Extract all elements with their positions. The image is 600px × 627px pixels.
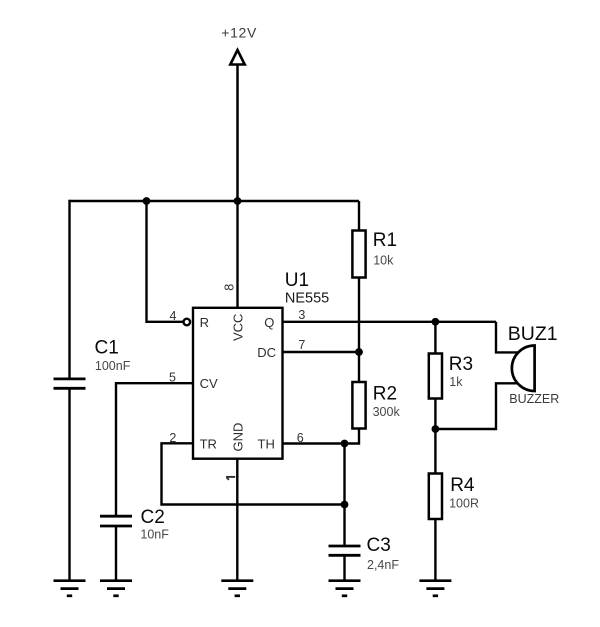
svg-text:R3: R3 (449, 354, 473, 375)
svg-text:BUZ1: BUZ1 (508, 323, 558, 345)
wire buzzer top feed (496, 322, 520, 353)
wire R4 top lead (434, 429, 436, 474)
ground U1 pin1 (221, 581, 253, 596)
svg-text:4: 4 (170, 309, 177, 323)
wire TH node down to C3 (343, 444, 345, 546)
svg-text:U1: U1 (285, 270, 309, 291)
svg-text:Q: Q (264, 315, 274, 330)
svg-text:8: 8 (222, 284, 236, 291)
junction rail / +12V line (234, 197, 242, 205)
svg-text:6: 6 (297, 431, 304, 445)
svg-text:10k: 10k (373, 254, 394, 268)
svg-text:TH: TH (258, 436, 275, 451)
junction TH / R2 / C3 (341, 440, 349, 448)
svg-text:100R: 100R (449, 496, 479, 510)
wire pin4 branch: down then right to reset bubble (147, 201, 184, 322)
svg-text:BUZZER: BUZZER (509, 392, 559, 406)
wire pin 2 TR net: left, down, right to TH/C3 node (162, 443, 345, 504)
power +12V symbol (221, 25, 257, 201)
ground C2 (100, 581, 132, 596)
junction pin3 net / R3 (432, 318, 440, 326)
svg-text:100nF: 100nF (95, 359, 131, 373)
resistor R4 (429, 474, 442, 520)
pin number 1 (rotated, drawn) (226, 477, 235, 480)
wire R2 bottom lead elbow (345, 429, 360, 444)
resistor R1 (352, 231, 365, 278)
wire C1 bottom lead (68, 390, 70, 581)
svg-text:GND: GND (231, 423, 246, 452)
svg-text:1k: 1k (449, 375, 463, 389)
wire buzzer bottom return (435, 383, 519, 429)
svg-text:NE555: NE555 (285, 290, 329, 306)
IC U1 NE555 box (193, 308, 283, 459)
resistor R2 (352, 382, 365, 429)
wire pin 6 TH net (283, 442, 345, 444)
svg-text:R: R (200, 315, 209, 330)
wire GND pin 1 lead (236, 459, 238, 580)
svg-text:C2: C2 (141, 507, 165, 528)
svg-text:R2: R2 (373, 384, 397, 405)
svg-text:VCC: VCC (231, 314, 246, 341)
capacitor C3 (329, 546, 361, 555)
svg-text:300k: 300k (373, 405, 401, 419)
capacitor C1 (54, 379, 86, 388)
wire C2 bottom lead (115, 527, 117, 580)
ground C1 (54, 581, 86, 596)
svg-text:DC: DC (257, 345, 276, 360)
wire pin 3 output net (283, 321, 497, 323)
capacitor C2 (100, 516, 132, 526)
ground R4 (419, 581, 451, 596)
junction R3 / R4 / buzzer return (432, 425, 440, 433)
svg-text:7: 7 (298, 338, 305, 352)
wire C3 bottom lead (343, 557, 345, 581)
resistor R3 (429, 354, 442, 399)
svg-text:TR: TR (200, 436, 217, 451)
svg-text:CV: CV (200, 376, 218, 391)
svg-text:+12V: +12V (221, 25, 257, 41)
buzzer BUZ1 symbol (512, 346, 535, 392)
wire R1 top lead (358, 201, 360, 231)
wire +12V rail (top horizontal) (70, 200, 360, 202)
wire R2 top lead (358, 352, 360, 382)
svg-text:10nF: 10nF (140, 528, 169, 542)
svg-text:3: 3 (298, 308, 305, 322)
svg-text:C3: C3 (367, 535, 391, 556)
junction TR wire / C3 wire (341, 501, 349, 509)
reset bubble (pin 4 inverter circle) (184, 319, 191, 326)
wire R3 top lead (434, 322, 436, 354)
svg-text:2,4nF: 2,4nF (367, 558, 399, 572)
wire pin 7 discharge net (283, 351, 360, 353)
wire rail down to C1 (68, 200, 70, 378)
svg-text:R4: R4 (450, 475, 475, 496)
wire pin 5 CV net to C2 (116, 383, 193, 515)
wire R4 bottom lead (434, 519, 436, 580)
junction pin7 / R1-R2 (355, 348, 363, 356)
wire +12V line down to pin 8 (236, 201, 238, 308)
svg-text:C1: C1 (95, 338, 119, 359)
svg-text:5: 5 (169, 370, 176, 384)
junction rail / pin4 branch (143, 197, 151, 205)
svg-text:R1: R1 (373, 230, 397, 251)
wire R3 bottom lead (434, 399, 436, 430)
wire R1 bottom lead (358, 278, 360, 353)
ground C3 (329, 581, 361, 596)
svg-text:2: 2 (169, 431, 176, 445)
